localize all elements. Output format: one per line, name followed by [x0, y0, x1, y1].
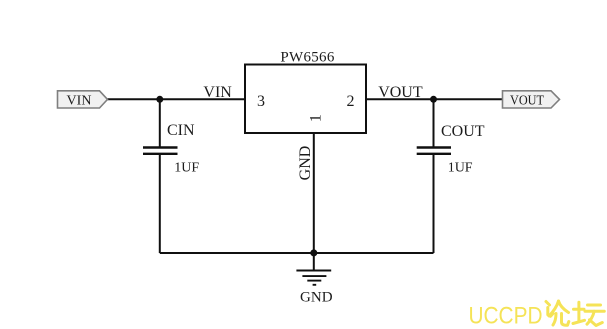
svg-text:VIN: VIN: [67, 93, 92, 108]
svg-text:GND: GND: [300, 290, 333, 306]
svg-text:COUT: COUT: [441, 123, 485, 140]
svg-text:CIN: CIN: [167, 122, 195, 139]
svg-text:3: 3: [257, 93, 265, 110]
svg-text:VOUT: VOUT: [378, 84, 423, 101]
svg-text:1: 1: [307, 114, 324, 122]
svg-text:GND: GND: [297, 146, 314, 181]
svg-text:UCCPD: UCCPD: [469, 303, 543, 329]
svg-text:1UF: 1UF: [448, 161, 473, 176]
svg-text:1UF: 1UF: [174, 161, 199, 176]
svg-text:VIN: VIN: [203, 84, 232, 101]
svg-text:2: 2: [347, 93, 355, 110]
svg-text:VOUT: VOUT: [510, 93, 544, 108]
svg-text:PW6566: PW6566: [280, 50, 334, 66]
